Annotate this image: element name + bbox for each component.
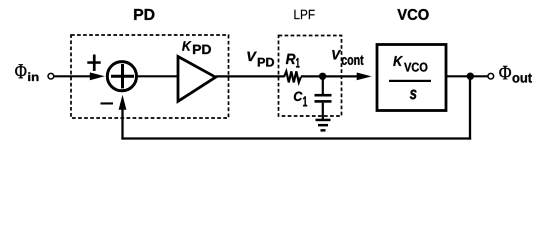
label LPF (low-pass filter) <box>294 10 314 19</box>
feedback wire bottom run <box>121 137 471 139</box>
label K_VCO <box>393 56 403 66</box>
label s (denominator) <box>410 90 417 100</box>
input arrowhead <box>90 72 105 80</box>
PD dashed box <box>71 35 229 118</box>
label R1 subscript <box>296 58 299 68</box>
junction node dot (filter) <box>319 73 326 80</box>
wire resistor to VCO <box>301 75 358 77</box>
summer plus <box>111 64 134 88</box>
plus sign label <box>87 55 100 71</box>
resistor R1 <box>284 71 301 82</box>
node Phi_out subscript <box>513 74 532 83</box>
node V_cont label <box>332 50 341 59</box>
label C1 subscript <box>303 96 307 106</box>
wire amp to LPF <box>216 75 285 77</box>
input terminal circle <box>48 73 54 79</box>
node Phi_out label <box>499 66 511 79</box>
wire summer to amp <box>138 75 178 77</box>
output junction node dot <box>467 73 474 80</box>
node Phi_in label <box>15 64 26 78</box>
label K_PD <box>182 41 191 50</box>
label K_PD subscript <box>193 45 211 54</box>
label PD (phase detector) <box>134 9 154 20</box>
label R1 <box>286 54 296 64</box>
summing junction circle <box>107 62 136 91</box>
node V_cont subscript <box>342 56 364 65</box>
minus sign label <box>101 102 114 104</box>
feedback arrowhead into summer <box>119 95 127 110</box>
label VCO <box>397 9 428 20</box>
fraction bar <box>389 80 431 82</box>
node V_PD subscript <box>258 58 274 67</box>
label K_VCO subscript <box>404 63 427 72</box>
amplifier K_PD triangle <box>178 57 216 102</box>
label C1 <box>294 92 303 101</box>
feedback wire right drop <box>469 76 471 139</box>
arrowhead into VCO <box>357 73 372 81</box>
VCO box <box>377 45 446 111</box>
node Phi_in subscript <box>28 72 38 81</box>
output terminal circle <box>488 73 494 79</box>
capacitor C1 <box>315 77 332 119</box>
wire VCO to output <box>446 75 488 77</box>
feedback wire left rise <box>121 108 123 140</box>
LPF dashed box <box>279 36 342 117</box>
ground symbol <box>316 119 331 132</box>
node V_PD label <box>247 52 256 61</box>
wire input to summer <box>54 75 91 77</box>
